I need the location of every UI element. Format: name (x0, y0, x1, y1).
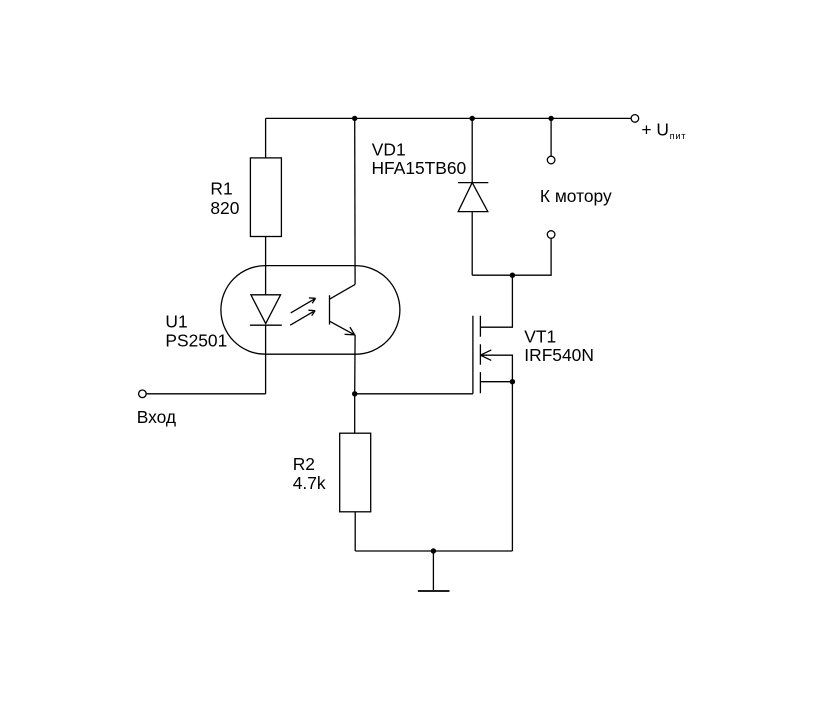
wire emitter down to node (354, 335, 356, 394)
wire Vhod to LED cathode (146, 393, 265, 395)
wire VD1 to motor lower (472, 239, 551, 276)
wire top rail to R1 (265, 118, 267, 157)
wire ground rail (355, 550, 512, 552)
wire node to R2 (354, 394, 356, 433)
wire top rail (266, 117, 631, 119)
svg-text:PS2501: PS2501 (165, 330, 227, 350)
wire node to gate (355, 393, 473, 395)
terminal motor upper (547, 156, 555, 164)
svg-text:+ U: + U (641, 119, 669, 139)
terminal Vhod (139, 390, 147, 398)
svg-text:U1: U1 (165, 311, 187, 331)
terminal motor lower (547, 231, 555, 239)
wire VD1 anode down (471, 212, 473, 276)
diode LED of U1 (250, 295, 282, 325)
node top rail / motor upper (548, 116, 553, 121)
svg-text:IRF540N: IRF540N (524, 345, 594, 365)
transistor of U1 phototransistor (330, 284, 356, 335)
svg-text:VT1: VT1 (524, 327, 556, 347)
wire LED cathode down (265, 325, 267, 394)
svg-text:R2: R2 (293, 454, 315, 474)
light arrow lower (290, 310, 315, 325)
wire VD1 top (471, 118, 473, 182)
wire collector to top rail (354, 118, 356, 284)
ground (432, 551, 434, 590)
node top rail / optocoupler collector (352, 116, 357, 121)
wire R1 to LED anode (265, 237, 267, 295)
wire source down to ground rail (511, 382, 513, 551)
transistor VT1 drain lead (480, 275, 512, 327)
svg-text:820: 820 (210, 198, 239, 218)
node emitter / R2 / gate (352, 391, 357, 396)
wire R2 to ground rail (354, 512, 356, 551)
transistor VT1 body arrow (480, 350, 512, 382)
node drain junction (510, 273, 515, 278)
svg-text:VD1: VD1 (372, 139, 406, 159)
transistor VT1 channel dashed (479, 316, 481, 394)
wire motor upper to top rail (550, 118, 552, 156)
svg-text:К мотору: К мотору (540, 186, 612, 206)
svg-text:Вход: Вход (137, 407, 176, 427)
svg-text:4.7k: 4.7k (293, 473, 326, 493)
resistor R1 (250, 158, 281, 237)
svg-text:R1: R1 (210, 179, 232, 199)
op-amp U1 optocoupler body (221, 266, 400, 355)
node ground junction (431, 548, 436, 553)
diode VD1 (458, 183, 488, 212)
transistor VT1 gate bar (472, 316, 474, 394)
svg-text:пит: пит (670, 131, 687, 141)
node source junction (510, 379, 515, 384)
transistor VT1 source lead (480, 381, 512, 383)
svg-text:HFA15TB60: HFA15TB60 (372, 158, 467, 178)
light arrow upper (291, 298, 316, 313)
resistor R2 (340, 433, 371, 512)
terminal +Upit (631, 115, 639, 123)
node +Upit junction to VD1 (470, 116, 475, 121)
